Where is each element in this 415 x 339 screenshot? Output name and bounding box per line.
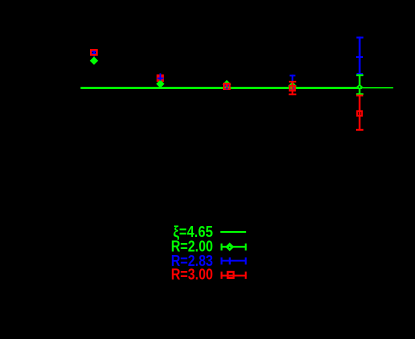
svg-text:R=3.00: R=3.00: [171, 266, 213, 283]
